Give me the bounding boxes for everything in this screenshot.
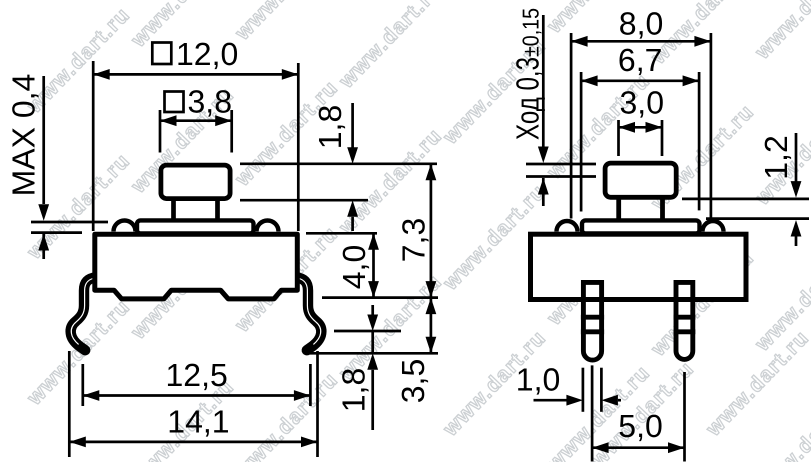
- svg-text:1,8: 1,8: [312, 105, 348, 149]
- svg-text:5,0: 5,0: [618, 408, 662, 444]
- svg-text:1,8: 1,8: [336, 368, 372, 412]
- svg-text:1,0: 1,0: [516, 361, 560, 397]
- svg-text:6,7: 6,7: [618, 42, 662, 78]
- svg-text:7,3: 7,3: [396, 218, 432, 262]
- svg-text:14,1: 14,1: [167, 404, 229, 440]
- svg-text:MAX 0,4: MAX 0,4: [6, 74, 42, 197]
- svg-text:8,0: 8,0: [619, 5, 663, 41]
- svg-text:3,5: 3,5: [395, 359, 431, 403]
- svg-text:1,2: 1,2: [758, 135, 794, 179]
- svg-text:12,5: 12,5: [166, 357, 228, 393]
- svg-text:4,0: 4,0: [336, 245, 372, 289]
- svg-text:3,8: 3,8: [188, 84, 232, 120]
- svg-text:12,0: 12,0: [176, 36, 238, 72]
- svg-text:3,0: 3,0: [620, 85, 664, 121]
